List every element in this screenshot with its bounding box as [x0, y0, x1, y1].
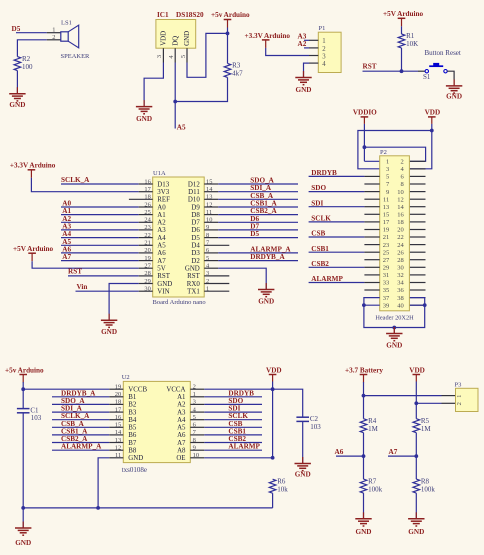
- svg-text:DS18S20: DS18S20: [176, 11, 204, 19]
- pin 14 of U1A: [204, 191, 218, 193]
- ground: [9, 87, 25, 109]
- svg-text:D4: D4: [191, 243, 200, 250]
- svg-text:+5v Arduino: +5v Arduino: [5, 366, 44, 374]
- svg-text:3: 3: [322, 53, 326, 60]
- pin 19 of U1A: [139, 260, 153, 262]
- svg-text:SPEAKER: SPEAKER: [61, 53, 91, 60]
- power VDD: [409, 366, 425, 381]
- wire A7 to pin 19: [61, 260, 139, 262]
- wire battery vertical: [363, 382, 365, 419]
- pin 21 of P2: [364, 236, 379, 238]
- pin 8 of U2: [190, 442, 204, 444]
- svg-text:22: 22: [397, 234, 404, 241]
- svg-text:1M: 1M: [421, 425, 432, 433]
- wire P2 pins 37,39 to ground: [364, 298, 394, 328]
- pin 23 of U1A: [139, 229, 153, 231]
- pin 5 of IC1: [180, 48, 187, 62]
- svg-text:R4: R4: [368, 417, 377, 425]
- wire R7 to ground: [363, 493, 365, 519]
- svg-text:103: 103: [31, 414, 42, 422]
- wire DRDYB_A to pin 20: [52, 396, 109, 398]
- wire +5V to pin 27: [32, 261, 139, 268]
- power +3.3V Arduino: [245, 32, 291, 48]
- junction VDD: [430, 129, 434, 133]
- svg-text:A5: A5: [157, 243, 166, 250]
- IC U2 txs0108e: [122, 374, 191, 474]
- svg-text:2: 2: [322, 46, 326, 53]
- wire R8 to ground: [415, 493, 417, 519]
- svg-text:+3.7 Battery: +3.7 Battery: [345, 366, 383, 374]
- pin 2 of U2: [190, 388, 204, 390]
- svg-text:VDDIO: VDDIO: [353, 109, 377, 117]
- wire IC1 GND pin to +5v: [187, 33, 228, 77]
- wire DRDYB from pin 1: [204, 396, 262, 398]
- svg-text:S1: S1: [423, 73, 431, 81]
- svg-text:GND: GND: [101, 328, 117, 336]
- svg-text:13: 13: [383, 204, 390, 211]
- wire SDI_A from pin 14: [218, 191, 298, 193]
- svg-text:B6: B6: [128, 432, 137, 439]
- svg-text:26: 26: [397, 249, 404, 256]
- svg-text:GND: GND: [184, 31, 191, 46]
- wire IC1 VDD to ground: [144, 63, 163, 107]
- pin 20 of U2: [109, 396, 123, 398]
- junction gnd stub: [392, 326, 396, 330]
- junction pin39: [362, 303, 366, 307]
- svg-text:B2: B2: [128, 402, 137, 409]
- capacitor C1: [17, 406, 42, 422]
- junction rail mid: [96, 506, 100, 510]
- wire CSB2 to P2 pin 29: [309, 266, 365, 268]
- resistor R2: [14, 55, 33, 71]
- svg-text:A1: A1: [177, 394, 186, 401]
- wire OE to R6: [204, 457, 272, 459]
- pin 2 of P3: [442, 402, 456, 404]
- svg-text:GND: GND: [356, 528, 372, 536]
- power +5V Arduino: [13, 245, 54, 261]
- svg-text:A7: A7: [177, 440, 186, 447]
- power +5v Arduino: [211, 11, 250, 28]
- pin 2 of LS1: [47, 39, 61, 41]
- svg-text:3V3: 3V3: [157, 189, 169, 196]
- svg-text:34: 34: [397, 280, 404, 287]
- pin 3 of IC1: [156, 48, 163, 62]
- svg-text:RX0: RX0: [187, 281, 201, 288]
- wire +5v to R3: [227, 28, 229, 64]
- svg-text:A3: A3: [177, 409, 186, 416]
- wire C2 to ground: [302, 421, 304, 463]
- power +3.3V Arduino: [10, 162, 56, 178]
- wire VDDIO to P2 pins 1,2: [364, 124, 425, 161]
- pin of S1: [447, 71, 454, 80]
- junction pin40: [423, 303, 427, 307]
- svg-text:GND: GND: [258, 298, 274, 306]
- wire +5V to R1: [401, 26, 403, 34]
- svg-text:U2: U2: [122, 374, 130, 381]
- pin 29 of U1A: [139, 283, 153, 285]
- wire pin 11 GND down: [98, 458, 109, 508]
- svg-text:B1: B1: [128, 394, 137, 401]
- svg-text:38: 38: [397, 295, 404, 302]
- svg-text:VDD: VDD: [161, 31, 168, 46]
- power +5V Arduino: [383, 10, 424, 26]
- svg-text:19: 19: [383, 227, 390, 234]
- svg-text:10k: 10k: [277, 485, 288, 493]
- svg-text:D8: D8: [191, 212, 200, 219]
- svg-text:P3: P3: [455, 382, 462, 389]
- svg-text:U1A: U1A: [153, 170, 166, 177]
- pin 6 of U1A: [204, 252, 218, 254]
- svg-text:DRDYB_A: DRDYB_A: [250, 253, 285, 261]
- pin 14 of U2: [109, 434, 123, 436]
- pin 2 of U1A: [204, 283, 229, 285]
- svg-text:A7: A7: [62, 253, 71, 261]
- ground: [446, 79, 462, 100]
- svg-text:R5: R5: [421, 417, 430, 425]
- pin 4 of IC1: [168, 48, 175, 62]
- pin 8 of U1A: [204, 237, 218, 239]
- wire SDI from pin 4: [204, 411, 262, 413]
- wire IC1 DQ to A5: [174, 63, 176, 129]
- svg-text:+5V Arduino: +5V Arduino: [383, 10, 424, 18]
- svg-text:12: 12: [397, 196, 404, 203]
- svg-text:RST: RST: [363, 63, 377, 71]
- svg-text:A6: A6: [335, 448, 344, 456]
- wire VDD to P2 pins 3,4: [358, 124, 432, 169]
- svg-text:LS1: LS1: [61, 20, 72, 27]
- svg-text:OE: OE: [176, 455, 185, 462]
- svg-text:1: 1: [52, 27, 55, 34]
- svg-text:A2: A2: [298, 40, 307, 48]
- svg-text:A4: A4: [177, 417, 186, 424]
- svg-text:VIN: VIN: [157, 288, 169, 295]
- svg-text:8: 8: [401, 181, 404, 188]
- wire A5 to pin 21: [61, 244, 139, 246]
- svg-text:A1: A1: [157, 212, 166, 219]
- svg-text:CSB1: CSB1: [311, 245, 329, 253]
- wire +3.3V to pin 17: [31, 178, 138, 192]
- pin 11 of U2: [109, 457, 123, 459]
- svg-text:B3: B3: [128, 409, 137, 416]
- svg-text:ALARMP_A: ALARMP_A: [61, 443, 102, 451]
- svg-text:4k7: 4k7: [232, 70, 243, 78]
- power VDDIO: [353, 109, 377, 124]
- pin 3 of U1A: [204, 275, 229, 277]
- svg-text:20: 20: [397, 227, 404, 234]
- pin 17 of U1A: [139, 191, 153, 193]
- wire A7: [388, 455, 416, 457]
- svg-text:Vin: Vin: [77, 283, 88, 291]
- svg-text:A2: A2: [177, 402, 186, 409]
- svg-text:30: 30: [397, 265, 404, 272]
- svg-text:+3.3V Arduino: +3.3V Arduino: [10, 162, 56, 170]
- svg-text:GND: GND: [157, 281, 172, 288]
- pin 4 of P1: [309, 62, 318, 64]
- wire CSB1_A from pin 12: [218, 206, 298, 208]
- wire A6 to pin 20: [61, 252, 139, 254]
- pin 1 of P3: [442, 395, 456, 397]
- svg-text:+3.3V Arduino: +3.3V Arduino: [245, 32, 291, 40]
- wire +3.3V to P1 pin 3: [266, 48, 309, 56]
- pin 5 of U2: [190, 419, 204, 421]
- svg-text:23: 23: [383, 242, 390, 249]
- svg-text:B7: B7: [128, 440, 137, 447]
- svg-text:5: 5: [386, 174, 389, 181]
- wire R6 to ground rail: [272, 493, 274, 508]
- wire R4 to A6: [363, 433, 365, 479]
- svg-text:10K: 10K: [406, 40, 418, 48]
- junction RST: [400, 69, 404, 73]
- resistor R3: [224, 62, 243, 78]
- pin 10 of U2: [190, 457, 204, 459]
- svg-text:A8: A8: [177, 447, 186, 454]
- svg-text:R1: R1: [406, 32, 415, 40]
- svg-text:D12: D12: [188, 181, 200, 188]
- pin of S1: [418, 70, 425, 72]
- ground: [408, 512, 424, 536]
- wire SCLK to P2 pin 17: [309, 221, 365, 223]
- svg-text:A0: A0: [157, 204, 166, 211]
- svg-text:SCLK_A: SCLK_A: [61, 176, 90, 184]
- junction A6: [362, 454, 366, 458]
- svg-text:D6: D6: [191, 227, 200, 234]
- svg-text:A6: A6: [157, 250, 166, 257]
- svg-text:29: 29: [383, 265, 390, 272]
- wire CSB1_A to pin 14: [52, 434, 109, 436]
- wire A6: [336, 455, 364, 457]
- wire SDI to P2 pin 13: [309, 206, 365, 208]
- svg-text:40: 40: [397, 302, 404, 309]
- svg-text:R2: R2: [22, 55, 31, 63]
- pin 25 of P2: [364, 251, 379, 253]
- junction VDDIO: [363, 145, 367, 149]
- svg-text:25: 25: [383, 249, 390, 256]
- pin 9 of P2: [364, 191, 379, 193]
- wire P1 pin 4 to ground: [304, 63, 310, 77]
- wire speaker pin 2 to R2: [17, 40, 46, 57]
- pin 1 of P1: [309, 39, 318, 41]
- pin 6 of U2: [190, 426, 204, 428]
- wire SDO to P2 pin 9: [309, 191, 365, 193]
- power VDD: [425, 109, 441, 124]
- junction VCCA: [271, 387, 275, 391]
- pin 5 of U1A: [204, 260, 218, 262]
- wire pin 29 to ground: [109, 284, 139, 321]
- junction A7: [414, 454, 418, 458]
- ground: [258, 283, 274, 306]
- pin 12 of U2: [109, 449, 123, 451]
- pin 4 of U1A: [204, 267, 218, 269]
- junction +5v: [226, 32, 230, 36]
- wire A2 to P1 pin 2: [304, 47, 309, 49]
- pin 11 of U1A: [204, 214, 218, 216]
- resistor R1: [398, 32, 418, 48]
- svg-text:Button Reset: Button Reset: [425, 49, 461, 57]
- wire D5 from pin 8: [218, 237, 298, 239]
- ground: [295, 71, 311, 94]
- svg-text:REF: REF: [157, 197, 170, 204]
- P2 left pin stubs: [364, 184, 379, 290]
- pin 12 of U1A: [204, 206, 218, 208]
- svg-text:36: 36: [397, 287, 404, 294]
- pin 1 of U1A: [204, 290, 229, 292]
- svg-text:GND: GND: [9, 101, 25, 109]
- svg-text:21: 21: [383, 234, 390, 241]
- svg-text:GND: GND: [296, 86, 312, 94]
- svg-text:ALARMP: ALARMP: [228, 443, 260, 451]
- wire A1 to pin 25: [61, 214, 139, 216]
- pin 15 of U2: [109, 426, 123, 428]
- svg-text:D10: D10: [188, 197, 200, 204]
- wire pin 4 to ground: [218, 268, 266, 289]
- IC U1 box IC1 DS18S20: [156, 11, 204, 48]
- svg-text:100k: 100k: [368, 485, 383, 493]
- pin 13 of U2: [109, 442, 123, 444]
- wire DRDYB_A from pin 5: [218, 260, 298, 262]
- wire SCLK_A to pin 16: [52, 419, 109, 421]
- svg-text:D9: D9: [191, 204, 200, 211]
- wire CSB2 from pin 8: [204, 442, 262, 444]
- svg-text:103: 103: [310, 423, 321, 431]
- wire to P3 pin 2: [416, 402, 441, 404]
- svg-text:5V: 5V: [157, 266, 165, 273]
- wire ALARMP from pin 9: [204, 449, 262, 451]
- wire R5 to A7: [415, 433, 417, 479]
- U2 pin names and numbers: [115, 384, 199, 463]
- junction VCCB: [21, 387, 25, 391]
- svg-text:B5: B5: [128, 425, 137, 432]
- svg-text:32: 32: [397, 272, 404, 279]
- pin 33 of P2: [364, 282, 379, 284]
- wire RST to pin 28: [68, 275, 139, 277]
- wire RST to S1: [363, 70, 419, 72]
- svg-text:3: 3: [156, 55, 163, 58]
- wire SDO_A to pin 18: [52, 403, 109, 405]
- wire CSB to P2 pin 21: [309, 236, 365, 238]
- svg-text:GND: GND: [136, 115, 152, 123]
- wire CSB2_A from pin 11: [218, 214, 298, 216]
- svg-text:DQ: DQ: [172, 36, 179, 46]
- pin 24 of U1A: [139, 221, 153, 223]
- wire SCLK_A to pin 16: [61, 183, 139, 185]
- connector P3: [455, 382, 479, 412]
- junction OE: [271, 456, 275, 460]
- pin 3 of P1: [309, 55, 318, 57]
- ground: [453, 80, 455, 86]
- svg-text:C1: C1: [30, 406, 39, 414]
- svg-text:37: 37: [383, 295, 390, 302]
- wire CSB from pin 6: [204, 426, 262, 428]
- ground: [101, 314, 117, 336]
- svg-text:IC1: IC1: [157, 11, 169, 19]
- pin 9 of U2: [190, 449, 204, 451]
- svg-text:5: 5: [180, 55, 187, 58]
- svg-text:2: 2: [401, 159, 404, 166]
- svg-text:2: 2: [52, 34, 55, 41]
- power VDD: [266, 366, 282, 381]
- wire to VCCB pin 19: [23, 388, 109, 390]
- svg-text:A5: A5: [177, 425, 186, 432]
- svg-text:C2: C2: [310, 415, 319, 423]
- svg-text:A4: A4: [157, 235, 166, 242]
- svg-text:D7: D7: [191, 220, 200, 227]
- pin 1 of LS1: [47, 32, 61, 34]
- svg-text:VDD: VDD: [425, 109, 441, 117]
- svg-text:D5: D5: [12, 25, 21, 33]
- svg-text:GND: GND: [15, 539, 31, 547]
- ground: [136, 100, 152, 123]
- wire A3 to pin 23: [61, 229, 139, 231]
- wire D5 to speaker pin 1: [16, 32, 47, 34]
- svg-text:14: 14: [397, 204, 404, 211]
- svg-text:+5V Arduino: +5V Arduino: [13, 245, 54, 253]
- svg-text:RST: RST: [187, 273, 200, 280]
- svg-text:15: 15: [383, 212, 390, 219]
- wire R3 to DQ: [175, 77, 227, 101]
- power +3.7 Battery: [345, 366, 383, 382]
- svg-text:1: 1: [322, 38, 325, 45]
- pin 22 of U1A: [139, 237, 153, 239]
- svg-text:D5: D5: [250, 230, 259, 238]
- pin 1 of U2: [190, 396, 204, 398]
- wire CSB_A from pin 13: [218, 198, 298, 200]
- wire ground rail: [23, 507, 272, 509]
- push button S1: [423, 63, 447, 81]
- wire VDD vertical to OE: [272, 382, 274, 458]
- pin 13 of U1A: [204, 198, 218, 200]
- ground: [386, 327, 402, 350]
- svg-text:VCCB: VCCB: [128, 387, 147, 394]
- svg-text:A3: A3: [157, 227, 166, 234]
- wire A0 to pin 26: [61, 206, 139, 208]
- svg-text:100: 100: [22, 63, 33, 71]
- svg-text:27: 27: [383, 257, 390, 264]
- svg-text:GND: GND: [128, 455, 143, 462]
- IC U1A Board Arduino nano: [153, 170, 206, 306]
- svg-text:1: 1: [386, 159, 389, 166]
- wire CSB1 to P2 pin 25: [309, 251, 365, 253]
- svg-text:Board Arduino nano: Board Arduino nano: [153, 299, 206, 306]
- svg-text:VDD: VDD: [266, 366, 282, 374]
- pin 9 of U1A: [204, 229, 218, 231]
- svg-text:ALARMP: ALARMP: [311, 275, 343, 283]
- svg-text:D13: D13: [157, 181, 169, 188]
- pin 28 of U1A: [139, 275, 153, 277]
- svg-text:R6: R6: [277, 477, 286, 485]
- pin 2 of P1: [309, 47, 318, 49]
- wire DRDYB to P2 pin 5: [309, 175, 365, 177]
- pin 26 of U1A: [139, 206, 153, 208]
- svg-text:R7: R7: [368, 477, 377, 485]
- power +5v Arduino: [5, 366, 44, 382]
- svg-text:B4: B4: [128, 417, 137, 424]
- svg-text:A5: A5: [177, 123, 186, 131]
- wire VCCA to C2: [204, 389, 302, 417]
- wire +5v vertical: [22, 382, 24, 409]
- svg-text:VCCA: VCCA: [166, 387, 185, 394]
- svg-text:SCLK: SCLK: [311, 214, 331, 222]
- svg-text:GND: GND: [446, 93, 462, 101]
- svg-text:RST: RST: [68, 268, 82, 276]
- junction DQ/R3: [173, 100, 177, 104]
- wire R1 to RST: [401, 48, 403, 71]
- wire to P3 pin 1: [364, 395, 442, 397]
- ground: [393, 328, 395, 334]
- svg-text:A7: A7: [389, 448, 398, 456]
- pin 30 of U1A: [139, 290, 153, 292]
- pin 3 of U2: [190, 403, 204, 405]
- svg-text:28: 28: [397, 257, 404, 264]
